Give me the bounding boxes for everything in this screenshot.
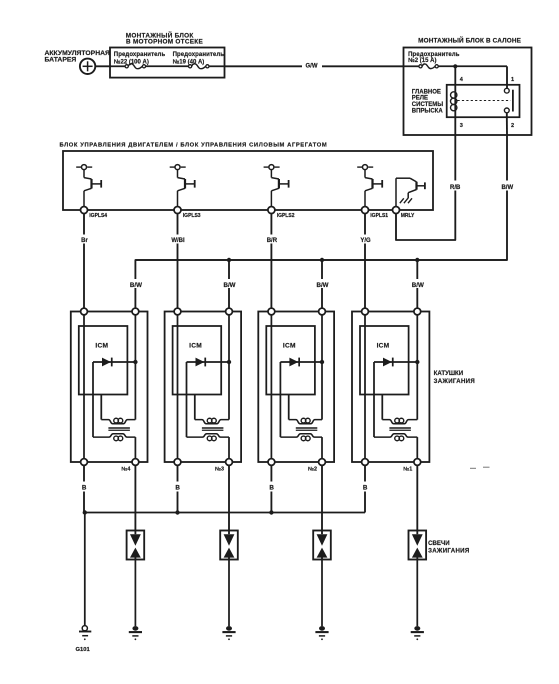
wire B/W bus: [135, 259, 507, 261]
wire B/R from IGPLS2 to coil: [262, 214, 280, 312]
fuse No19 (40 A) label: [173, 52, 225, 66]
ICM box (coil №2): [266, 326, 315, 395]
engine compartment fuse box title: [126, 31, 204, 46]
ECU title: [60, 142, 328, 148]
wire ICM to primary (coil №1): [381, 395, 383, 420]
diode D3: [280, 358, 322, 367]
svg-text:Предохранитель: Предохранитель: [114, 52, 166, 58]
svg-text:РЕЛЕ: РЕЛЕ: [412, 96, 428, 102]
pin IGPLS4: [81, 207, 108, 220]
ground G101: [76, 626, 92, 653]
transistor Q1 (IGPLS4 driver): [76, 165, 101, 207]
label №2: [308, 466, 317, 472]
svg-text:G/W: G/W: [306, 64, 318, 70]
wire to relay contact pin 1: [506, 66, 508, 88]
svg-text:R/B: R/B: [450, 185, 461, 191]
wire B/W branch to coil №2: [321, 260, 323, 312]
wire diode anode to secondary (coil №2): [279, 362, 281, 437]
wire spark plug №2 to ground: [321, 560, 323, 627]
ICM box (coil №4): [79, 326, 128, 395]
wire spark plug №3 to ground: [228, 560, 230, 627]
ground (ECU internal, MRLY emitter): [400, 198, 412, 203]
fuse No2 (15 A) label: [408, 52, 460, 64]
pin top-right (coil №2): [319, 308, 326, 315]
pin top-right (coil №1): [414, 308, 421, 315]
ground (spark plug №2): [315, 626, 328, 640]
pin top-left (coil №1): [362, 308, 369, 315]
wire Y/G from IGPLS1 to coil: [356, 214, 374, 312]
engine compartment fuse box: [110, 48, 225, 78]
secondary winding (coil №1): [374, 434, 417, 459]
pin IGPLS3: [174, 207, 201, 220]
pin bottom-right (coil №2): [319, 459, 326, 466]
svg-text:СВЕЧИ: СВЕЧИ: [428, 540, 450, 547]
svg-text:ВПРЫСКА: ВПРЫСКА: [412, 109, 444, 115]
pin top-left (coil №3): [174, 308, 181, 315]
wire Br from IGPLS4 to coil: [75, 214, 93, 312]
wire B/W inside coil №3: [228, 315, 230, 420]
wire diode anode to secondary (coil №3): [186, 362, 188, 437]
svg-text:3: 3: [460, 123, 463, 129]
wire spark plug №4 to ground: [134, 560, 136, 627]
core (coil №1): [389, 428, 411, 430]
ignition coil №4 box: [71, 312, 148, 463]
svg-text:B/R: B/R: [267, 238, 278, 244]
pin MRLY: [393, 207, 416, 220]
diode D2: [187, 358, 230, 367]
pin IGPLS2: [268, 207, 295, 220]
svg-text:IGPLS3: IGPLS3: [183, 213, 201, 219]
pin bottom-right (coil №1): [414, 459, 421, 466]
cabin fuse box title: [418, 36, 522, 45]
svg-text:БЛОК УПРАВЛЕНИЯ ДВИГАТЕЛЕМ / Б: БЛОК УПРАВЛЕНИЯ ДВИГАТЕЛЕМ / БЛОК УПРАВЛ…: [60, 142, 328, 148]
svg-text:IGPLS2: IGPLS2: [277, 213, 295, 219]
node B bus junction: [83, 510, 87, 514]
svg-text:B/W: B/W: [412, 282, 424, 289]
svg-text:№4: №4: [121, 466, 130, 472]
wire B/W branch to coil №1: [416, 260, 418, 312]
pin bottom-right (coil №3): [226, 459, 233, 466]
primary winding (coil №1): [382, 418, 417, 423]
fuse No19 (40 A): [189, 64, 225, 69]
pin top-right (coil №3): [226, 308, 233, 315]
svg-text:№3: №3: [215, 466, 224, 472]
svg-text:ЗАЖИГАНИЯ: ЗАЖИГАНИЯ: [428, 547, 469, 554]
pin bottom-left (coil №3): [174, 459, 181, 466]
svg-text:1: 1: [511, 77, 514, 83]
spark plug №1: [409, 531, 427, 560]
label №1: [403, 466, 412, 472]
svg-text:IGPLS1: IGPLS1: [370, 213, 388, 219]
secondary winding (coil №4): [93, 434, 135, 459]
battery label: [45, 50, 111, 64]
wire coil №3 to spark plug: [228, 465, 230, 534]
svg-text:B/W: B/W: [130, 282, 142, 289]
ICM box (coil №3): [173, 326, 222, 395]
wire diode anode to secondary (coil №1): [373, 362, 375, 437]
wire battery to engine fuse box: [95, 65, 111, 67]
svg-text:Предохранитель: Предохранитель: [173, 52, 225, 58]
wire G/W engine box to cabin box: [225, 62, 404, 71]
spark plugs label: [428, 540, 469, 554]
ground (spark plug №1): [411, 626, 424, 640]
pin top-right (coil №4): [132, 308, 139, 315]
wire B from coil №4: [80, 465, 89, 512]
wire B/W inside coil №4: [134, 315, 136, 420]
spark plug №4: [127, 531, 145, 560]
wire relay pin 2 down: [506, 113, 508, 135]
relay coil: [451, 92, 457, 135]
ignition coil №2 box: [258, 312, 334, 463]
svg-text:ICM: ICM: [377, 343, 390, 350]
pin IGPLS1: [362, 207, 389, 220]
fuse No2 (15 A): [404, 64, 508, 69]
ECU box: [63, 151, 433, 210]
ignition coil №3 box: [165, 312, 242, 463]
wire spark plug №1 to ground: [416, 560, 418, 627]
node diode junction coil №2: [320, 360, 324, 364]
relay switch contacts: [458, 88, 513, 113]
wire R/B relay pin3 to MRLY: [396, 135, 464, 240]
coils label: [434, 370, 475, 385]
svg-text:ICM: ICM: [283, 343, 296, 350]
battery: [80, 59, 95, 74]
svg-text:Br: Br: [81, 238, 88, 244]
main injection system relay box: [447, 85, 520, 117]
svg-text:ЗАЖИГАНИЯ: ЗАЖИГАНИЯ: [434, 378, 475, 385]
core (coil №4): [108, 428, 129, 430]
ignition coil №1 box: [352, 312, 429, 463]
svg-text:БАТАРЕЯ: БАТАРЕЯ: [45, 56, 77, 63]
svg-text:MRLY: MRLY: [401, 213, 415, 219]
pin bottom-left (coil №2): [268, 459, 275, 466]
label B/W 2: [221, 279, 238, 289]
primary winding (coil №4): [101, 418, 135, 423]
svg-text:№19 (40 А): №19 (40 А): [173, 59, 205, 66]
main relay label: [412, 90, 444, 115]
svg-text:№2 (15 А): №2 (15 А): [408, 57, 436, 64]
label №4: [121, 466, 130, 472]
pin bottom-right (coil №4): [132, 459, 139, 466]
wire B from coil №1: [361, 465, 370, 512]
svg-text:СИСТЕМЫ: СИСТЕМЫ: [412, 102, 443, 108]
wire through coil №2 left: [270, 315, 272, 459]
primary winding (coil №3): [195, 418, 229, 423]
label B/W 1: [127, 279, 144, 289]
node diode junction coil №3: [227, 360, 231, 364]
svg-text:В МОТОРНОМ ОТСЕКЕ: В МОТОРНОМ ОТСЕКЕ: [126, 39, 203, 46]
transistor Q5 (MRLY driver): [396, 178, 425, 206]
wire coil №1 to spark plug: [416, 465, 418, 534]
label B/W 3: [314, 279, 331, 289]
secondary winding (coil №3): [187, 434, 230, 459]
svg-text:Y/G: Y/G: [360, 238, 371, 244]
label B/W 4: [409, 279, 426, 289]
node B/W branch 2: [227, 258, 231, 262]
wire B from coil №2: [267, 465, 276, 512]
svg-text:B: B: [269, 485, 274, 492]
svg-text:W/Bl: W/Bl: [171, 238, 185, 244]
ground (spark plug №3): [222, 626, 235, 640]
wire B from coil №3: [173, 465, 182, 512]
core (coil №2): [296, 428, 318, 430]
transistor Q3 (IGPLS2 driver): [264, 165, 289, 207]
spark plug №3: [220, 531, 238, 560]
stray scan marks: [470, 467, 490, 468]
secondary winding (coil №2): [280, 434, 322, 459]
wire to relay coil pin 4: [454, 66, 456, 92]
node B bus junction: [269, 510, 273, 514]
cabin fuse box: [404, 48, 532, 136]
svg-text:G101: G101: [76, 647, 91, 653]
wire to ground G101: [84, 513, 86, 626]
svg-text:КАТУШКИ: КАТУШКИ: [434, 370, 464, 377]
node B bus junction: [175, 510, 179, 514]
wire ICM to primary (coil №4): [100, 395, 102, 420]
label №3: [215, 466, 224, 472]
fuse No22 (100 A) label: [114, 52, 166, 66]
svg-text:ГЛАВНОЕ: ГЛАВНОЕ: [412, 90, 441, 96]
svg-text:МОНТАЖНЫЙ БЛОК В САЛОНЕ: МОНТАЖНЫЙ БЛОК В САЛОНЕ: [418, 36, 522, 45]
wire B/W relay pin2 to bus: [135, 135, 516, 312]
wire ICM to primary (coil №2): [288, 395, 290, 420]
svg-text:ICM: ICM: [95, 343, 108, 350]
wire coil №2 to spark plug: [321, 465, 323, 534]
wire B/W branch to coil №3: [228, 260, 230, 312]
transistor Q2 (IGPLS3 driver): [170, 165, 195, 207]
wire through coil №4 left: [83, 315, 85, 459]
spark plug №2: [313, 531, 331, 560]
wire diode anode to secondary (coil №4): [92, 362, 94, 437]
svg-text:B: B: [82, 485, 87, 492]
svg-text:2: 2: [511, 123, 514, 129]
svg-text:№2: №2: [308, 466, 317, 472]
svg-text:B: B: [363, 485, 368, 492]
node fuse output junction: [453, 64, 457, 68]
node diode junction coil №4: [133, 360, 137, 364]
pin bottom-left (coil №4): [81, 459, 88, 466]
pin top-left (coil №4): [81, 308, 88, 315]
wire ICM to primary (coil №3): [194, 395, 196, 420]
svg-text:ICM: ICM: [189, 343, 202, 350]
wire through coil №3 left: [177, 315, 179, 459]
primary winding (coil №2): [289, 418, 322, 423]
svg-text:№1: №1: [403, 466, 412, 472]
node diode junction coil №1: [415, 360, 419, 364]
wire B/W inside coil №1: [416, 315, 418, 420]
wire through coil №1 left: [364, 315, 366, 459]
wire coil №4 to spark plug: [134, 465, 136, 534]
diode D4: [374, 358, 417, 367]
node B/W branch 3: [320, 258, 324, 262]
svg-text:B/W: B/W: [223, 282, 235, 289]
svg-text:B/W: B/W: [316, 282, 328, 289]
svg-text:B: B: [175, 485, 180, 492]
ground (spark plug №4): [129, 626, 142, 640]
wire B/W inside coil №2: [321, 315, 323, 420]
svg-text:IGPLS4: IGPLS4: [89, 213, 107, 219]
svg-text:B/W: B/W: [501, 185, 513, 191]
pin bottom-left (coil №1): [362, 459, 369, 466]
diode D1: [93, 358, 135, 367]
fuse No22 (100 A): [110, 64, 189, 69]
core (coil №3): [202, 428, 224, 430]
transistor Q4 (IGPLS1 driver): [357, 165, 382, 207]
wire B ground bus: [85, 512, 365, 514]
wire W/Bl from IGPLS3 to coil: [169, 214, 187, 312]
node B/W branch 4: [415, 258, 419, 262]
pin top-left (coil №2): [268, 308, 275, 315]
ICM box (coil №1): [360, 326, 409, 395]
